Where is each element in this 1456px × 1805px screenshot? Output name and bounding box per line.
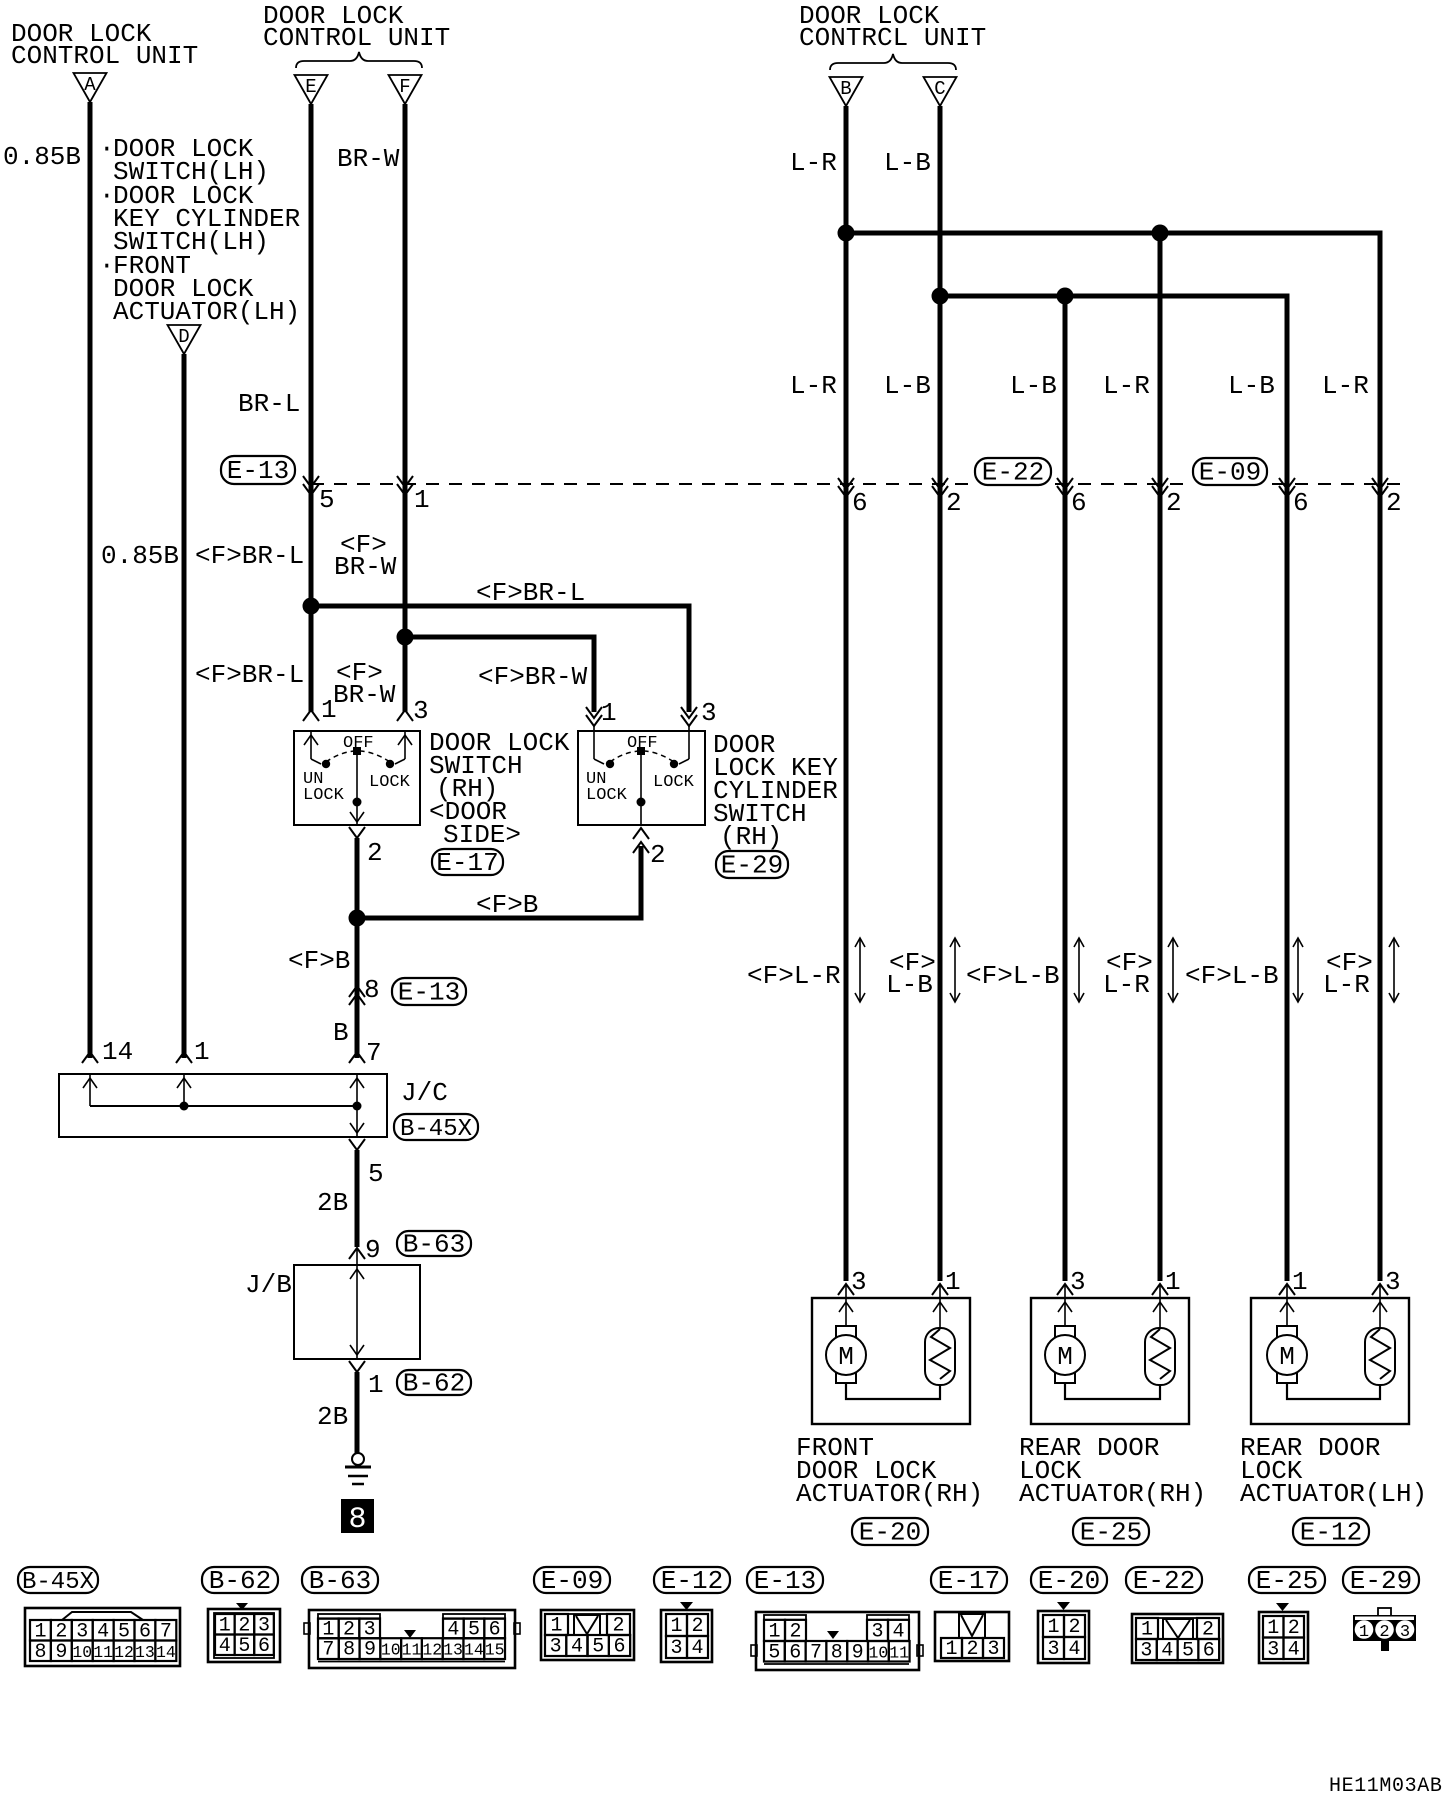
- svg-text:<F>BR-W: <F>BR-W: [478, 662, 588, 692]
- svg-text:BR-W: BR-W: [334, 552, 397, 582]
- key cylinder switch internals: pin leads: [593, 726, 595, 759]
- svg-text:L-R: L-R: [1323, 970, 1370, 1000]
- branch wire (F)BR-W to key cylinder pin 1: [405, 637, 594, 712]
- connector triangle D: [168, 325, 201, 354]
- branch wire (F)BR-L to key cylinder pin 3: [311, 606, 689, 712]
- pin 1 marker door lock switch: [303, 710, 319, 721]
- svg-text:3: 3: [1070, 1267, 1086, 1297]
- svg-text:E-25: E-25: [1080, 1518, 1142, 1548]
- key switch common junction dot: [637, 798, 646, 807]
- switch contact UNLOCK dot: [322, 760, 330, 768]
- svg-text:LOCK: LOCK: [653, 773, 695, 792]
- wire B vertical L-R: [844, 106, 849, 1281]
- connector pinout B-62 label: [202, 1567, 278, 1593]
- svg-text:13: 13: [443, 1641, 463, 1660]
- svg-text:7: 7: [366, 1038, 382, 1068]
- svg-text:2: 2: [1068, 1616, 1080, 1639]
- svg-text:0.85B: 0.85B: [3, 142, 81, 172]
- connector pinout E-09 drawing: [541, 1610, 634, 1660]
- svg-text:11: 11: [402, 1641, 422, 1660]
- svg-text:LOCK: LOCK: [303, 786, 345, 805]
- dashed harness line segment 1: [311, 483, 968, 485]
- svg-text:10: 10: [868, 1643, 888, 1662]
- svg-text:M: M: [1279, 1342, 1295, 1372]
- svg-text:6: 6: [852, 488, 868, 518]
- svg-text:E-09: E-09: [1199, 458, 1261, 488]
- pin marker right: [1152, 1284, 1168, 1295]
- svg-text:1: 1: [368, 1370, 384, 1400]
- junction dot F wire: [397, 629, 414, 646]
- svg-text:<F>L-R: <F>L-R: [747, 961, 841, 991]
- connector triangle A: [74, 73, 107, 102]
- svg-text:1: 1: [945, 1267, 961, 1297]
- switch travel dashed arc: [326, 751, 390, 762]
- wire F vertical: [403, 104, 408, 712]
- svg-text:8: 8: [364, 975, 380, 1005]
- svg-text:L-B: L-B: [884, 148, 931, 178]
- svg-text:3: 3: [670, 1637, 682, 1660]
- switch contact LOCK dot: [386, 760, 394, 768]
- svg-text:D: D: [178, 326, 189, 348]
- svg-text:A: A: [84, 74, 96, 96]
- svg-text:L-R: L-R: [1322, 371, 1369, 401]
- solenoid coil: [1365, 1328, 1395, 1385]
- svg-text:8: 8: [343, 1639, 355, 1662]
- svg-text:<F>B: <F>B: [476, 890, 538, 920]
- switch pivot contact: [353, 747, 361, 755]
- solenoid coil: [925, 1328, 955, 1385]
- motor M: [1055, 1326, 1075, 1383]
- svg-text:<F>BR-L: <F>BR-L: [195, 541, 304, 571]
- svg-text:2: 2: [946, 488, 962, 518]
- inline connector pin wire C (pin 2): [932, 478, 948, 489]
- brace over E and F: [296, 52, 422, 68]
- wire drop x=1065 L-B: [1063, 296, 1068, 1281]
- svg-text:CONTRCL UNIT: CONTRCL UNIT: [799, 23, 986, 53]
- actuator internal leads: [1286, 1284, 1288, 1326]
- svg-text:J/B: J/B: [245, 1270, 292, 1300]
- svg-text:0.85B: 0.85B: [101, 541, 179, 571]
- svg-text:E-17: E-17: [938, 1566, 1000, 1596]
- svg-text:E-29: E-29: [1350, 1566, 1412, 1596]
- motor M: [836, 1326, 856, 1383]
- connector triangle E: [295, 75, 328, 104]
- pin 3 marker door lock switch: [397, 710, 413, 721]
- junction dot B bus1: [838, 225, 855, 242]
- svg-text:OFF: OFF: [627, 734, 658, 753]
- svg-text:L-R: L-R: [790, 371, 837, 401]
- svg-text:4: 4: [1161, 1640, 1173, 1663]
- svg-text:3: 3: [701, 698, 717, 728]
- svg-text:E-22: E-22: [982, 458, 1044, 488]
- svg-text:3: 3: [851, 1267, 867, 1297]
- svg-text:9: 9: [852, 1641, 864, 1664]
- svg-text:<F>B: <F>B: [288, 946, 350, 976]
- connector E-12 label capsule: [1293, 1518, 1369, 1545]
- svg-text:J/C: J/C: [401, 1078, 448, 1108]
- svg-text:B: B: [840, 78, 851, 100]
- connector pinout E-13 drawing: [756, 1612, 919, 1670]
- svg-text:CONTROL UNIT: CONTROL UNIT: [263, 23, 450, 53]
- junction dot bus1 at x=1160: [1152, 225, 1169, 242]
- svg-text:E-20: E-20: [859, 1518, 921, 1548]
- svg-text:9: 9: [364, 1639, 376, 1662]
- svg-text:E-12: E-12: [661, 1566, 723, 1596]
- svg-text:1: 1: [1047, 1616, 1059, 1639]
- connector E-25 label capsule: [1073, 1518, 1149, 1545]
- svg-text:E-13: E-13: [227, 456, 289, 486]
- switch internals: pin leads: [310, 731, 312, 759]
- svg-text:1: 1: [601, 698, 617, 728]
- connector B-63 label capsule: [397, 1231, 471, 1256]
- pin 7 marker J/C: [349, 1052, 365, 1063]
- bus wire 1 horizontal from B: [846, 233, 1380, 1281]
- bus wire 2 horizontal from C: [940, 296, 1287, 1281]
- svg-text:12: 12: [422, 1641, 442, 1660]
- svg-text:BR-L: BR-L: [238, 389, 300, 419]
- actuator internal leads: [845, 1284, 847, 1326]
- pin marker right: [932, 1284, 948, 1295]
- connector pinout E-25 drawing: [1276, 1603, 1289, 1611]
- dashed harness line segment 3: [1272, 483, 1402, 485]
- connector B-45X label capsule: [394, 1114, 478, 1140]
- svg-text:E-25: E-25: [1256, 1566, 1318, 1596]
- svg-text:E-13: E-13: [398, 978, 460, 1008]
- svg-text:B-45X: B-45X: [22, 1569, 94, 1596]
- svg-text:M: M: [838, 1342, 854, 1372]
- wire drop x=1160 L-R: [1158, 233, 1163, 1281]
- ground reference marker 8: [341, 1499, 374, 1533]
- pin marker right: [1372, 1284, 1388, 1295]
- svg-text:B-62: B-62: [209, 1566, 271, 1596]
- svg-text:2: 2: [1386, 488, 1402, 518]
- svg-text:2: 2: [367, 838, 383, 868]
- svg-text:LOCK: LOCK: [586, 786, 628, 805]
- change arrow 1: [859, 938, 861, 1002]
- solenoid coil: [1145, 1328, 1175, 1385]
- svg-text:E-09: E-09: [541, 1566, 603, 1596]
- svg-text:14: 14: [102, 1037, 133, 1067]
- wire 2B lower: [355, 1372, 360, 1453]
- svg-text:HE11M03AB: HE11M03AB: [1329, 1775, 1442, 1798]
- connector E-13 label capsule (pin8): [392, 978, 466, 1005]
- svg-text:2: 2: [650, 840, 666, 870]
- connector pinout B-63 drawing: [309, 1610, 515, 1668]
- key switch contact UNLOCK dot: [606, 760, 614, 768]
- svg-text:1: 1: [321, 695, 337, 725]
- key switch contact LOCK dot: [670, 760, 678, 768]
- connector pinout E-09 label: [534, 1567, 610, 1593]
- svg-text:BR-W: BR-W: [337, 144, 400, 174]
- change arrow 5: [1297, 938, 1299, 1002]
- pin 3 marker key cylinder switch: [681, 707, 697, 718]
- inline connector E-13 pin 8 markers: [349, 986, 365, 997]
- inline connector pin F wire (pin 1): [397, 476, 413, 487]
- svg-text:14: 14: [156, 1643, 176, 1662]
- pin marker left: [838, 1284, 854, 1295]
- svg-text:10: 10: [381, 1641, 401, 1660]
- connector E-17 label capsule: [432, 849, 503, 875]
- svg-text:10: 10: [72, 1643, 92, 1662]
- wire from key cylinder pin 2 to junction: [357, 846, 641, 918]
- change arrow 2: [954, 938, 956, 1002]
- svg-text:1: 1: [1359, 1623, 1369, 1642]
- svg-text:11: 11: [93, 1643, 113, 1662]
- svg-text:B-62: B-62: [403, 1369, 465, 1399]
- inline connector pin x=1287 (pin 6): [1279, 478, 1295, 489]
- change arrow 3: [1078, 938, 1080, 1002]
- svg-text:2B: 2B: [317, 1188, 348, 1218]
- svg-text:4: 4: [1288, 1638, 1300, 1661]
- svg-text:1: 1: [194, 1037, 210, 1067]
- wire E vertical BR-W: [309, 104, 314, 712]
- actuator box: [1251, 1298, 1409, 1424]
- actuator bottom link wire: [1287, 1383, 1380, 1399]
- connector pinout E-20 drawing: [1057, 1602, 1070, 1610]
- switch common junction dot: [353, 798, 362, 807]
- svg-text:2: 2: [966, 1638, 978, 1661]
- connector pinout B-45X drawing: [25, 1608, 180, 1666]
- svg-text:3: 3: [987, 1638, 999, 1661]
- motor M: [1277, 1326, 1297, 1383]
- svg-text:14: 14: [464, 1641, 484, 1660]
- connector pinout E-12 drawing: [680, 1602, 693, 1610]
- svg-text:13: 13: [135, 1643, 155, 1662]
- svg-text:12: 12: [114, 1643, 134, 1662]
- svg-text:3: 3: [1047, 1638, 1059, 1661]
- actuator internal leads: [1064, 1284, 1066, 1326]
- svg-text:3: 3: [1267, 1638, 1279, 1661]
- wire 2B upper: [355, 1150, 360, 1247]
- junction dot (F)B: [349, 910, 366, 927]
- svg-text:L-B: L-B: [884, 371, 931, 401]
- connector E-22 label capsule: [975, 458, 1051, 485]
- junction block J/B box: [294, 1265, 420, 1359]
- svg-text:L-R: L-R: [790, 148, 837, 178]
- door lock key cylinder switch (RH) box: [578, 731, 705, 825]
- key switch pivot contact: [637, 747, 645, 755]
- svg-text:<F>BR-L: <F>BR-L: [476, 578, 585, 608]
- svg-text:6: 6: [258, 1635, 270, 1658]
- connector pinout E-12 label: [654, 1567, 730, 1593]
- svg-text:9: 9: [365, 1235, 381, 1265]
- svg-text:6: 6: [789, 1641, 801, 1664]
- svg-text:BR-W: BR-W: [333, 680, 396, 710]
- connector pinout E-22 label: [1126, 1567, 1202, 1593]
- change arrow 4: [1172, 938, 1174, 1002]
- svg-text:E-13: E-13: [754, 1566, 816, 1596]
- svg-text:3: 3: [1385, 1267, 1401, 1297]
- connector triangle B: [830, 77, 863, 106]
- svg-text:1: 1: [945, 1638, 957, 1661]
- svg-text:E-22: E-22: [1133, 1566, 1195, 1596]
- svg-text:3: 3: [1140, 1640, 1152, 1663]
- pin marker left: [1279, 1284, 1295, 1295]
- connector pinout E-20 label: [1031, 1567, 1107, 1593]
- junction dot C bus2: [932, 288, 949, 305]
- connector pinout B-45X label: [18, 1567, 98, 1593]
- svg-text:E-20: E-20: [1038, 1566, 1100, 1596]
- svg-text:11: 11: [889, 1643, 909, 1662]
- actuator box: [812, 1298, 970, 1424]
- connector pinout E-17 drawing: [935, 1612, 1009, 1661]
- svg-text:1: 1: [414, 485, 430, 515]
- svg-text:OFF: OFF: [343, 734, 374, 753]
- connector B-62 label capsule: [397, 1370, 471, 1395]
- wire from switch pin 2 down: [355, 838, 360, 1058]
- dashed harness line segment 2: [1055, 483, 1190, 485]
- svg-text:ACTUATOR(RH): ACTUATOR(RH): [1019, 1479, 1206, 1509]
- svg-text:2: 2: [1379, 1623, 1389, 1642]
- svg-text:8: 8: [348, 1503, 366, 1537]
- svg-text:7: 7: [810, 1641, 822, 1664]
- svg-text:E-29: E-29: [721, 851, 783, 881]
- J/B internal lead: [356, 1248, 358, 1359]
- connector pinout E-17 label: [931, 1567, 1007, 1593]
- connector pinout E-13 label: [747, 1567, 823, 1593]
- connector E-20 label capsule: [852, 1518, 928, 1545]
- brace over B and C: [830, 54, 956, 70]
- inline connector pin x=1160 (pin 2): [1152, 478, 1168, 489]
- svg-text:<F>L-B: <F>L-B: [1185, 961, 1279, 991]
- pin 1 marker J/C: [176, 1052, 192, 1063]
- actuator box: [1031, 1298, 1189, 1424]
- inline connector pin wire B (pin 6): [838, 478, 854, 489]
- connector pinout B-63 label: [302, 1567, 378, 1593]
- inline connector pin x=1380 (pin 2): [1372, 478, 1388, 489]
- wire D vertical: [182, 354, 187, 1058]
- connector pinout E-29 drawing: [1378, 1608, 1391, 1616]
- pin 14 marker J/C: [82, 1052, 98, 1063]
- svg-text:L-B: L-B: [886, 970, 933, 1000]
- svg-text:1: 1: [1165, 1267, 1181, 1297]
- connector pinout E-22 drawing: [1132, 1614, 1223, 1663]
- actuator bottom link wire: [1065, 1383, 1160, 1399]
- svg-text:E-12: E-12: [1300, 1518, 1362, 1548]
- svg-text:2: 2: [691, 1615, 703, 1638]
- svg-text:SIDE>: SIDE>: [443, 820, 521, 850]
- svg-text:4: 4: [219, 1635, 231, 1658]
- svg-text:1: 1: [670, 1615, 682, 1638]
- svg-text:4: 4: [571, 1636, 583, 1659]
- junction dot E wire: [303, 598, 320, 615]
- svg-text:M: M: [1057, 1342, 1073, 1372]
- svg-text:2: 2: [1166, 488, 1182, 518]
- svg-text:6: 6: [1071, 488, 1087, 518]
- J/C bus dot 2: [353, 1102, 362, 1111]
- svg-text:B-45X: B-45X: [400, 1116, 472, 1143]
- door lock switch (RH) box: [294, 731, 420, 825]
- key switch pin 2 exit markers: [633, 828, 649, 839]
- connector pinout E-25 label: [1249, 1567, 1325, 1593]
- svg-text:6: 6: [1293, 488, 1309, 518]
- svg-text:L-R: L-R: [1103, 970, 1150, 1000]
- svg-text:B-63: B-63: [309, 1566, 371, 1596]
- svg-text:B-63: B-63: [403, 1230, 465, 1260]
- connector pinout B-62 drawing: [236, 1603, 248, 1610]
- svg-text:4: 4: [1068, 1638, 1080, 1661]
- svg-text:2: 2: [1288, 1617, 1300, 1640]
- switch pin 2 exit markers: [350, 812, 364, 822]
- ground symbol: [352, 1453, 364, 1465]
- svg-text:E-17: E-17: [436, 848, 498, 878]
- J/B pin 1 exit marker: [349, 1361, 365, 1372]
- svg-text:5: 5: [768, 1641, 780, 1664]
- connector E-09 label capsule: [1193, 458, 1267, 485]
- svg-text:ACTUATOR(RH): ACTUATOR(RH): [796, 1479, 983, 1509]
- inline connector pin E wire (pin 5): [303, 476, 319, 487]
- svg-text:8: 8: [34, 1641, 46, 1664]
- connector pinout E-29 label: [1343, 1567, 1419, 1593]
- pin marker left: [1057, 1284, 1073, 1295]
- svg-text:4: 4: [691, 1637, 703, 1660]
- svg-text:2B: 2B: [317, 1402, 348, 1432]
- svg-text:3: 3: [550, 1636, 562, 1659]
- svg-text:L-R: L-R: [1103, 371, 1150, 401]
- svg-text:B: B: [333, 1018, 349, 1048]
- key switch travel dashed arc: [610, 751, 674, 762]
- svg-text:E: E: [305, 76, 316, 98]
- svg-text:5: 5: [319, 485, 335, 515]
- svg-text:15: 15: [485, 1641, 505, 1660]
- svg-text:(RH): (RH): [720, 822, 782, 852]
- J/C bus dot 1: [180, 1102, 189, 1111]
- svg-text:<F>L-B: <F>L-B: [966, 961, 1060, 991]
- svg-text:LOCK: LOCK: [369, 773, 411, 792]
- J/C pin 5 exit marker: [349, 1139, 365, 1150]
- svg-text:1: 1: [1292, 1267, 1308, 1297]
- svg-text:9: 9: [55, 1641, 67, 1664]
- inline connector B-63 pin 9 marker: [349, 1248, 365, 1259]
- svg-text:<F>BR-L: <F>BR-L: [195, 660, 304, 690]
- connector triangle F: [389, 75, 422, 104]
- actuator bottom link wire: [846, 1383, 940, 1399]
- svg-text:1: 1: [1267, 1617, 1279, 1640]
- wire A (0.85B vertical): [88, 102, 93, 1058]
- svg-text:L-B: L-B: [1228, 371, 1275, 401]
- connector E-13 label capsule: [221, 456, 295, 484]
- junction dot bus2 at x=1065: [1057, 288, 1074, 305]
- svg-text:5: 5: [368, 1159, 384, 1189]
- svg-text:5: 5: [238, 1635, 250, 1658]
- J/C internal leads and bus: [89, 1074, 91, 1106]
- svg-text:ACTUATOR(LH): ACTUATOR(LH): [1240, 1479, 1427, 1509]
- change arrow 6: [1393, 938, 1395, 1002]
- svg-text:7: 7: [322, 1639, 334, 1662]
- connector triangle C: [924, 77, 957, 106]
- junction connector J/C box: [59, 1074, 387, 1137]
- pin 1 marker key cylinder switch: [586, 707, 602, 718]
- svg-text:5: 5: [1182, 1640, 1194, 1663]
- svg-text:5: 5: [592, 1636, 604, 1659]
- svg-text:8: 8: [831, 1641, 843, 1664]
- svg-text:ACTUATOR(LH): ACTUATOR(LH): [113, 297, 300, 327]
- svg-text:6: 6: [614, 1636, 626, 1659]
- svg-text:6: 6: [1203, 1640, 1215, 1663]
- svg-text:F: F: [399, 76, 410, 98]
- svg-text:3: 3: [413, 696, 429, 726]
- svg-text:CONTROL UNIT: CONTROL UNIT: [11, 41, 198, 71]
- connector E-29 label capsule: [716, 851, 788, 878]
- wire C vertical L-B: [938, 106, 943, 1281]
- inline connector pin x=1065 (pin 6): [1057, 478, 1073, 489]
- svg-text:C: C: [934, 78, 945, 100]
- svg-text:L-B: L-B: [1010, 371, 1057, 401]
- svg-text:3: 3: [1400, 1623, 1410, 1642]
